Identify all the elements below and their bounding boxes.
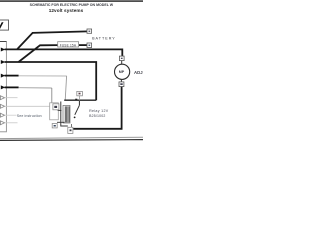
- pin arrow 4 (filled): [1, 85, 5, 89]
- fuse label box FUSE 15A: [58, 42, 79, 48]
- relay pin box 87 (switch output, on return wire): [68, 127, 73, 133]
- wire pin3: short black then grey to relay area: [5, 76, 67, 101]
- relay coil stub upper: [58, 109, 62, 111]
- wire: fuse to battery terminal 2: [78, 44, 87, 46]
- spare pin 7 (hollow): [0, 113, 16, 117]
- relay switch contact: [72, 96, 80, 128]
- svg-text:BATTERY: BATTERY: [92, 36, 116, 40]
- relay coil compartment (grey box): [50, 103, 59, 120]
- svg-text:12volt systems: 12volt systems: [49, 8, 84, 13]
- wire B: pin2 to relay switch input: [5, 62, 97, 100]
- wire A: pin1 to pump positive: [5, 49, 123, 56]
- relay coil stub lower: [57, 121, 65, 123]
- svg-text:Relay 12V: Relay 12V: [89, 109, 109, 113]
- logo box V (cut at left edge): [0, 20, 9, 31]
- battery terminal 2: [87, 43, 92, 48]
- pin arrow 2 (filled): [1, 60, 5, 64]
- svg-text:B25/1002: B25/1002: [89, 114, 105, 118]
- svg-text:SCHEMATIC FOR ELECTRIC PUMP ON: SCHEMATIC FOR ELECTRIC PUMP ON MODEL W: [30, 3, 114, 7]
- svg-text:MP: MP: [119, 70, 125, 74]
- spare pin 5 (hollow): [0, 96, 17, 100]
- battery terminal 1: [87, 29, 92, 33]
- relay pin box 85 (coil top): [53, 104, 59, 110]
- pump motor MP: [115, 56, 130, 87]
- spare pin 8 (hollow): [0, 121, 17, 125]
- spare pin 6 (hollow): [0, 104, 49, 108]
- top frame border: [0, 0, 143, 2]
- bottom frame border (double line): [0, 137, 143, 140]
- pin arrow 3 (filled): [1, 74, 5, 78]
- svg-text:ADJ: ADJ: [134, 70, 143, 75]
- relay outline: [61, 100, 96, 126]
- wire: branch from wire B up to fuse row: [19, 45, 59, 62]
- wire pin4: short black then grey down to relay coil: [5, 87, 52, 103]
- svg-text:FUSE 15A: FUSE 15A: [60, 43, 77, 47]
- pin arrow 1 (filled): [1, 48, 5, 52]
- wire: pump return down and left to relay switch output: [73, 87, 121, 129]
- wire: branch from wire A up to battery terminal 1: [17, 31, 87, 49]
- svg-text:See instruction: See instruction: [17, 114, 42, 118]
- relay coil: [63, 105, 70, 123]
- relay pin box 86 (switch input, above relay): [77, 91, 83, 95]
- connector block (tall box, cut at left edge): [0, 42, 6, 132]
- relay pin box 30 (coil bottom): [52, 124, 57, 128]
